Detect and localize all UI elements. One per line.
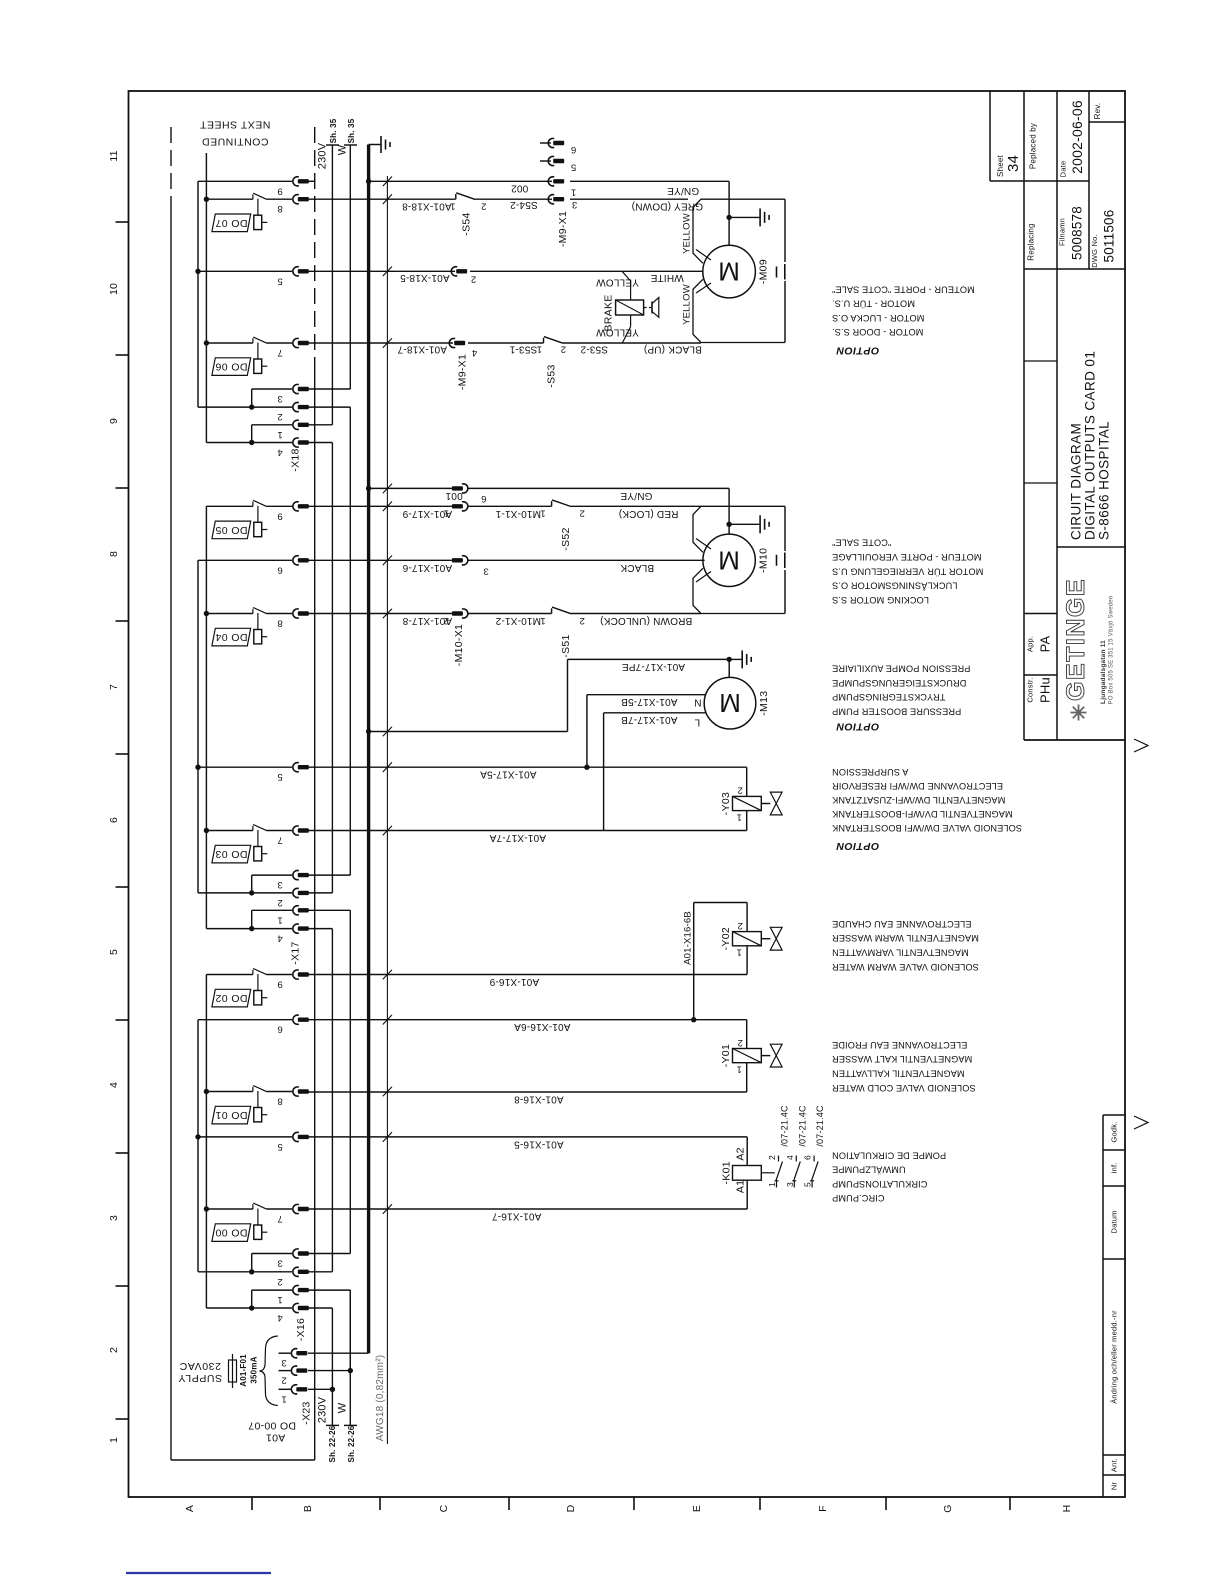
svg-text:5: 5 bbox=[277, 1141, 282, 1152]
svg-text:1: 1 bbox=[736, 812, 741, 823]
svg-text:MOTOR TÜR VERRIEGELUNG U.S: MOTOR TÜR VERRIEGELUNG U.S bbox=[832, 566, 983, 576]
svg-text:Ljungadalsgatan 11: Ljungadalsgatan 11 bbox=[1100, 640, 1107, 704]
svg-text:B: B bbox=[302, 1505, 314, 1512]
svg-text:DO 00-07: DO 00-07 bbox=[248, 1420, 296, 1432]
svg-text:2: 2 bbox=[471, 274, 476, 285]
svg-text:1: 1 bbox=[736, 947, 741, 958]
svg-text:DO 07: DO 07 bbox=[215, 217, 247, 229]
svg-text:Ant.: Ant. bbox=[1110, 1458, 1119, 1472]
capacitor M09 bbox=[776, 267, 778, 278]
wire row X16-5 to K01 A2 bbox=[308, 1136, 747, 1138]
wire row X17-7 (A) bbox=[308, 830, 747, 832]
motor M10 bbox=[703, 534, 755, 586]
svg-text:2: 2 bbox=[767, 1155, 777, 1160]
connector -X18 pins bbox=[293, 177, 299, 186]
svg-text:1: 1 bbox=[277, 429, 282, 440]
svg-text:3: 3 bbox=[572, 199, 577, 210]
svg-text:OPTION: OPTION bbox=[836, 720, 879, 732]
svg-text:A2: A2 bbox=[735, 1147, 747, 1160]
svg-text:1: 1 bbox=[108, 1437, 120, 1443]
DO 01 output bbox=[252, 1087, 254, 1092]
svg-text:Rev.: Rev. bbox=[1093, 103, 1102, 120]
svg-text:PRESSION POMPE AUXILIAIRE: PRESSION POMPE AUXILIAIRE bbox=[832, 664, 970, 674]
svg-text:LOCKING MOTOR S.S: LOCKING MOTOR S.S bbox=[832, 595, 929, 605]
svg-text:YELLOW: YELLOW bbox=[596, 276, 639, 287]
svg-text:WHITE: WHITE bbox=[650, 272, 683, 283]
svg-text:1: 1 bbox=[537, 343, 542, 354]
svg-text:-X18: -X18 bbox=[290, 448, 302, 471]
svg-text:A01-X17-7A: A01-X17-7A bbox=[489, 832, 546, 843]
PE bus junction dots bbox=[366, 179, 371, 184]
svg-text:Replacing: Replacing bbox=[1027, 223, 1036, 260]
svg-text:DRUCKSTEIGERUNGSPUMPE: DRUCKSTEIGERUNGSPUMPE bbox=[832, 678, 966, 688]
W bus (segments) bbox=[349, 145, 351, 389]
N wire to M13 bbox=[586, 695, 588, 768]
wire row X17-6 BLACK bbox=[308, 559, 452, 561]
svg-text:-M09: -M09 bbox=[757, 259, 769, 284]
svg-text:A01: A01 bbox=[266, 1432, 286, 1444]
solenoid valve -Y03 bbox=[733, 796, 762, 810]
svg-text:-X16: -X16 bbox=[295, 1318, 307, 1341]
svg-text:6: 6 bbox=[277, 1024, 282, 1035]
solenoid valve -Y02 bbox=[733, 932, 762, 946]
svg-text:4: 4 bbox=[785, 1155, 795, 1160]
svg-text:A1: A1 bbox=[735, 1180, 747, 1193]
svg-text:M: M bbox=[718, 257, 740, 287]
svg-text:3: 3 bbox=[108, 1215, 120, 1221]
svg-text:10: 10 bbox=[108, 283, 120, 295]
svg-text:C: C bbox=[438, 1504, 450, 1512]
svg-text:1: 1 bbox=[571, 187, 576, 198]
svg-text:SUPPLY: SUPPLY bbox=[178, 1372, 222, 1384]
svg-text:-Y02: -Y02 bbox=[720, 927, 732, 950]
svg-text:002: 002 bbox=[511, 183, 529, 194]
svg-text:ELECTROVANNE EAU CHAUDE: ELECTROVANNE EAU CHAUDE bbox=[832, 919, 971, 929]
PE wire from bus to M13 bbox=[369, 731, 568, 733]
frame row ticks bottom edge bbox=[251, 1497, 253, 1510]
svg-text:5: 5 bbox=[277, 771, 282, 782]
svg-text:6: 6 bbox=[571, 144, 576, 155]
svg-text:1: 1 bbox=[767, 1182, 777, 1187]
switch -S54 bbox=[455, 194, 457, 199]
svg-text:-X17: -X17 bbox=[290, 941, 302, 964]
M13 PE drop bbox=[728, 659, 730, 677]
svg-text:5: 5 bbox=[571, 162, 576, 173]
svg-text:4: 4 bbox=[277, 1312, 282, 1323]
card internal rail 206: X17 section bbox=[205, 506, 207, 928]
connector -M9-X1 pin 4 bbox=[449, 338, 455, 347]
svg-text:DIGITAL OUTPUTS CARD 01: DIGITAL OUTPUTS CARD 01 bbox=[1083, 351, 1098, 540]
svg-text:Godk.: Godk. bbox=[1110, 1121, 1119, 1142]
svg-text:D: D bbox=[565, 1504, 577, 1512]
svg-text:M: M bbox=[718, 545, 740, 575]
contactor -K01 coil bbox=[733, 1166, 762, 1181]
GETINGE star symbol bbox=[1071, 712, 1087, 714]
svg-text:Filnamn: Filnamn bbox=[1058, 218, 1067, 246]
svg-text:A01-X16-6A: A01-X16-6A bbox=[514, 1021, 571, 1032]
Y01 top feed bbox=[746, 1020, 748, 1049]
svg-text:8: 8 bbox=[277, 618, 282, 629]
svg-text:3: 3 bbox=[483, 566, 488, 577]
svg-text:Sh. 22-26: Sh. 22-26 bbox=[347, 1425, 356, 1462]
M09 yellow diagonals bbox=[696, 250, 711, 261]
card internal rail 198: X16 section bbox=[197, 1020, 199, 1272]
cable crossing slashes bbox=[383, 177, 392, 187]
GN/YE drop + ground M10 bbox=[728, 488, 730, 534]
brake circuit bbox=[622, 271, 631, 281]
switch -S51 bbox=[551, 608, 553, 613]
svg-text:8: 8 bbox=[108, 551, 120, 557]
connector -X16 pins bbox=[293, 970, 299, 979]
svg-text:CIRUIT DIAGRAM: CIRUIT DIAGRAM bbox=[1069, 423, 1084, 540]
svg-text:CONTINUED: CONTINUED bbox=[202, 136, 269, 148]
card internal rail 206: X18 section (from continuation) bbox=[205, 153, 207, 443]
svg-text:PHu: PHu bbox=[1038, 677, 1053, 703]
wire row X16-6A bbox=[308, 1019, 747, 1021]
svg-text:NEXT SHEET: NEXT SHEET bbox=[200, 119, 271, 131]
switch -S52 bbox=[551, 501, 553, 506]
svg-text:Inf.: Inf. bbox=[1110, 1162, 1119, 1173]
wire row 001 GN/YE to M10 bbox=[369, 487, 452, 489]
brake armature bbox=[644, 307, 651, 309]
svg-text:Ändring och/eller medd.-nr: Ändring och/eller medd.-nr bbox=[1110, 1310, 1119, 1404]
svg-text:MAGNETVENTIL DV/WFI-BOOSTERTAN: MAGNETVENTIL DV/WFI-BOOSTERTANK bbox=[831, 809, 1012, 819]
svg-text:G: G bbox=[942, 1504, 954, 1512]
svg-text:A01-X17-5B: A01-X17-5B bbox=[621, 696, 678, 707]
svg-text:001: 001 bbox=[445, 490, 463, 501]
svg-text:A01-X16-8: A01-X16-8 bbox=[514, 1094, 564, 1105]
DO 04 output bbox=[252, 609, 254, 614]
connector -X23 pins bbox=[291, 1349, 297, 1358]
svg-text:MAGNETVENTIL WARM WASSER: MAGNETVENTIL WARM WASSER bbox=[832, 933, 979, 943]
svg-text:GETINGE: GETINGE bbox=[1062, 578, 1090, 701]
svg-text:DO 02: DO 02 bbox=[215, 992, 247, 1004]
svg-text:2: 2 bbox=[277, 897, 282, 908]
svg-text:2: 2 bbox=[579, 508, 584, 519]
svg-text:GN/YE: GN/YE bbox=[620, 490, 652, 501]
svg-text:A01-X16-6B: A01-X16-6B bbox=[683, 911, 694, 965]
svg-text:5: 5 bbox=[803, 1182, 813, 1187]
svg-text:DO 06: DO 06 bbox=[215, 361, 247, 373]
svg-text:DO 01: DO 01 bbox=[215, 1109, 247, 1121]
svg-text:SOLENOID VALVE DW/WFI BOOSTERT: SOLENOID VALVE DW/WFI BOOSTERTANK bbox=[831, 823, 1022, 833]
svg-text:A01-X18-7: A01-X18-7 bbox=[397, 344, 447, 355]
svg-text:Sh. 35: Sh. 35 bbox=[329, 118, 338, 143]
svg-text:S-8666 HOSPITAL: S-8666 HOSPITAL bbox=[1097, 421, 1112, 540]
svg-text:S54-2: S54-2 bbox=[510, 199, 538, 210]
connector -M9-X1 pin 3 bbox=[548, 195, 554, 204]
svg-text:230V: 230V bbox=[317, 1396, 329, 1423]
svg-text:350mA: 350mA bbox=[250, 1356, 259, 1383]
svg-text:230VAC: 230VAC bbox=[179, 1360, 221, 1372]
svg-text:-M9-X1: -M9-X1 bbox=[457, 354, 469, 390]
wire row X16-9 (DO02) bbox=[308, 974, 747, 976]
wire row X17-8 (DO04) via S51 BROWN UNLOCK bbox=[308, 613, 452, 615]
wire row X16-7 (DO00) to K01 A1 bbox=[308, 1208, 747, 1210]
svg-text:SOLENOID VALVE COLD WATER: SOLENOID VALVE COLD WATER bbox=[832, 1083, 976, 1093]
svg-text:-S54: -S54 bbox=[461, 212, 473, 235]
svg-text:8: 8 bbox=[277, 1096, 282, 1107]
svg-text:5011506: 5011506 bbox=[1102, 210, 1117, 263]
connector -M10-X1 pin 6 bbox=[452, 486, 463, 490]
svg-text:DO 03: DO 03 bbox=[215, 848, 247, 860]
drawing frame border bbox=[129, 91, 1126, 1497]
capacitor M10 bbox=[776, 555, 778, 566]
svg-text:6: 6 bbox=[277, 564, 282, 575]
svg-text:4: 4 bbox=[472, 347, 477, 358]
wire row X18-5 WHITE bbox=[308, 270, 455, 272]
svg-text:BLACK: BLACK bbox=[620, 562, 654, 573]
svg-text:4: 4 bbox=[108, 1082, 120, 1088]
svg-text:Sh. 22-26: Sh. 22-26 bbox=[328, 1425, 337, 1462]
svg-text:2002-06-06: 2002-06-06 bbox=[1069, 100, 1085, 174]
cable spec line AWG18 bbox=[386, 176, 388, 1444]
svg-text:1: 1 bbox=[450, 200, 455, 211]
svg-text:A01-X16-7: A01-X16-7 bbox=[492, 1211, 542, 1222]
M9-X1 spare pins 6 and 5 bbox=[540, 142, 551, 144]
svg-text:4: 4 bbox=[277, 933, 282, 944]
connector -M10-X1 pin 1 bbox=[452, 504, 463, 508]
svg-text:2: 2 bbox=[108, 1347, 120, 1353]
ground symbol M13 bbox=[729, 658, 742, 660]
motor M09 bbox=[703, 245, 756, 298]
solenoid valve -Y01 bbox=[733, 1049, 762, 1063]
svg-text:MAGNETVENTIL KALT WASSER: MAGNETVENTIL KALT WASSER bbox=[832, 1054, 973, 1064]
svg-text:2: 2 bbox=[579, 615, 584, 626]
svg-text:A01-X17-5A: A01-X17-5A bbox=[480, 769, 537, 780]
svg-text:1: 1 bbox=[277, 914, 282, 925]
svg-text:MOTEUR - PORTE VEROUILLAGE: MOTEUR - PORTE VEROUILLAGE bbox=[832, 552, 981, 562]
svg-text:A: A bbox=[184, 1505, 196, 1512]
wire row X16-8 (DO01) bbox=[308, 1091, 747, 1093]
DO 05 output bbox=[252, 502, 254, 507]
svg-text:-S51: -S51 bbox=[560, 634, 572, 657]
X23 supply rows bbox=[308, 1352, 369, 1354]
svg-text:MAGNETVENTIL DW/WFI-ZUSATZTANK: MAGNETVENTIL DW/WFI-ZUSATZTANK bbox=[831, 795, 1005, 805]
svg-text:DO 00: DO 00 bbox=[215, 1227, 247, 1239]
svg-text:-Y03: -Y03 bbox=[720, 792, 732, 815]
svg-text:8: 8 bbox=[277, 203, 282, 214]
wire row X17-9 (DO05) via S52 RED LOCK bbox=[308, 505, 452, 507]
svg-text:A01-X16-9: A01-X16-9 bbox=[489, 976, 539, 987]
svg-text:YELLOW: YELLOW bbox=[596, 327, 639, 338]
motor M10 unit box bbox=[693, 506, 785, 613]
Y01 bottom feed bbox=[746, 1063, 748, 1092]
svg-text:/07-21.4C: /07-21.4C bbox=[815, 1105, 825, 1147]
svg-text:4: 4 bbox=[277, 447, 282, 458]
fold mark right edge lower bbox=[1134, 1116, 1148, 1129]
svg-text:Constr.: Constr. bbox=[1026, 677, 1035, 702]
svg-text:ELECTROVANNE DW/WFI RESERVOIR: ELECTROVANNE DW/WFI RESERVOIR bbox=[832, 781, 1003, 791]
svg-text:7: 7 bbox=[277, 1213, 282, 1224]
svg-text:BRAKE: BRAKE bbox=[603, 294, 615, 331]
svg-text:7: 7 bbox=[277, 347, 282, 358]
svg-text:-Y01: -Y01 bbox=[720, 1044, 732, 1067]
svg-text:MOTEUR - PORTE "COTE SALE": MOTEUR - PORTE "COTE SALE" bbox=[832, 284, 975, 294]
svg-text:A01-X17-7B: A01-X17-7B bbox=[621, 714, 678, 725]
svg-text:/07-21.4C: /07-21.4C bbox=[797, 1105, 807, 1147]
L wire to M13 bbox=[603, 713, 605, 831]
svg-text:11: 11 bbox=[108, 150, 120, 161]
connector -X17 pins bbox=[293, 502, 299, 511]
wire row X17-5 (A) bbox=[308, 766, 747, 768]
card internal rail 198: X17 section bbox=[197, 560, 199, 893]
svg-text:L: L bbox=[694, 717, 700, 728]
Y02 loop feed bbox=[746, 903, 748, 932]
svg-text:A SURPRESSION: A SURPRESSION bbox=[832, 767, 908, 777]
X23 pin group brace bbox=[260, 1336, 278, 1406]
svg-text:1: 1 bbox=[281, 1393, 286, 1404]
svg-text:BROWN (UNLOCK): BROWN (UNLOCK) bbox=[600, 615, 692, 626]
wire row X18-9 / GN-YE to M09 bbox=[369, 180, 552, 182]
svg-text:2: 2 bbox=[444, 615, 449, 626]
svg-text:E: E bbox=[691, 1505, 703, 1512]
svg-text:7: 7 bbox=[277, 835, 282, 846]
svg-text:GREY (DOWN): GREY (DOWN) bbox=[632, 201, 703, 212]
svg-text:2: 2 bbox=[277, 1276, 282, 1287]
svg-text:9: 9 bbox=[277, 979, 282, 990]
svg-text:2: 2 bbox=[737, 1037, 742, 1048]
A01 card bottom edge bbox=[171, 1459, 315, 1461]
svg-text:6: 6 bbox=[803, 1155, 813, 1160]
A01 card outline left edge (dashed continuation at top) bbox=[170, 127, 172, 203]
svg-text:S53-1: S53-1 bbox=[509, 344, 537, 355]
svg-text:7: 7 bbox=[108, 684, 120, 690]
wire row X18-8 (DO07) to S54 / GREY DOWN bbox=[308, 198, 456, 200]
svg-text:-K01: -K01 bbox=[721, 1161, 733, 1184]
X16->X23 link verticals bbox=[349, 1290, 351, 1371]
svg-text:34: 34 bbox=[1005, 155, 1022, 172]
svg-text:MAGNETVENTIL VARMVATTEN: MAGNETVENTIL VARMVATTEN bbox=[832, 948, 969, 958]
bus sheet-reference ticks bbox=[326, 144, 339, 146]
svg-text:2: 2 bbox=[481, 200, 486, 211]
svg-text:W: W bbox=[337, 1402, 349, 1413]
svg-text:A01-X16-5: A01-X16-5 bbox=[514, 1139, 564, 1150]
svg-text:POMPE DE CIRKULATION: POMPE DE CIRKULATION bbox=[832, 1150, 946, 1160]
svg-text:2: 2 bbox=[277, 411, 282, 422]
svg-text:"COTE SALE": "COTE SALE" bbox=[832, 538, 891, 548]
svg-text:RED (LOCK): RED (LOCK) bbox=[619, 508, 679, 519]
svg-text:-M13: -M13 bbox=[758, 691, 770, 716]
svg-text:5: 5 bbox=[108, 949, 120, 955]
svg-text:BLACK (UP): BLACK (UP) bbox=[644, 344, 702, 355]
connector -M10-X1 pin 2 bbox=[452, 611, 463, 615]
svg-text:-X23: -X23 bbox=[301, 1401, 313, 1424]
svg-text:App.: App. bbox=[1026, 636, 1035, 652]
svg-text:CIRKULATIONSPUMP: CIRKULATIONSPUMP bbox=[832, 1179, 927, 1189]
K01 contacts 1-2 3-4 5-6 bbox=[778, 1156, 780, 1162]
svg-text:TRYCKSTEGRINGSPUMP: TRYCKSTEGRINGSPUMP bbox=[832, 692, 945, 702]
svg-text:1: 1 bbox=[736, 1064, 741, 1075]
K01 coil feeds bbox=[746, 1137, 748, 1166]
DO 03 output bbox=[252, 826, 254, 831]
DO 02 output bbox=[252, 970, 254, 975]
svg-text:OPTION: OPTION bbox=[836, 840, 879, 852]
DO 06 output bbox=[252, 338, 254, 343]
svg-text:-S53: -S53 bbox=[546, 364, 558, 387]
svg-text:N: N bbox=[694, 697, 701, 708]
svg-text:2: 2 bbox=[737, 785, 742, 796]
svg-text:3: 3 bbox=[281, 1357, 286, 1368]
svg-text:1: 1 bbox=[277, 1294, 282, 1305]
svg-text:DWG No.: DWG No. bbox=[1090, 234, 1099, 267]
svg-text:-S52: -S52 bbox=[560, 527, 572, 550]
svg-text:MAGNETVENTIL KALLVATTEN: MAGNETVENTIL KALLVATTEN bbox=[832, 1069, 965, 1079]
svg-text:F: F bbox=[817, 1505, 829, 1512]
svg-text:9: 9 bbox=[277, 185, 282, 196]
svg-text:CIRC.PUMP: CIRC.PUMP bbox=[832, 1193, 884, 1203]
svg-text:A01-F01: A01-F01 bbox=[239, 1354, 248, 1387]
motor M09 unit box bbox=[693, 199, 785, 342]
svg-text:1: 1 bbox=[444, 508, 449, 519]
svg-text:MOTOR - DOOR S.S.: MOTOR - DOOR S.S. bbox=[832, 327, 923, 337]
svg-text:LUCKLÅSNINGSMOTOR O.S: LUCKLÅSNINGSMOTOR O.S bbox=[832, 581, 957, 591]
fuse A01-F01 symbol bbox=[229, 1360, 237, 1382]
svg-text:H: H bbox=[1061, 1505, 1073, 1513]
M10 red/brown diagonals bbox=[696, 539, 711, 550]
230V bus (segments) bbox=[331, 145, 333, 425]
svg-text:9: 9 bbox=[277, 510, 282, 521]
svg-text:W: W bbox=[337, 144, 349, 155]
svg-text:6: 6 bbox=[108, 817, 120, 823]
title block grid bbox=[989, 91, 991, 181]
card internal rail 198: X18 section bbox=[197, 181, 199, 407]
svg-text:M10-X1-1: M10-X1-1 bbox=[495, 508, 541, 519]
svg-text:/07-21.4C: /07-21.4C bbox=[780, 1105, 790, 1147]
Y03 feed wires bbox=[746, 767, 748, 796]
svg-text:SOLENOID VALVE WARM WATER: SOLENOID VALVE WARM WATER bbox=[832, 962, 979, 972]
connector -M9-X1 pin 2 bbox=[451, 267, 457, 276]
DO 00 output bbox=[252, 1204, 254, 1209]
svg-text:3: 3 bbox=[277, 1258, 282, 1269]
svg-text:5008578: 5008578 bbox=[1070, 206, 1085, 260]
card internal rail 206: X16 section bbox=[205, 975, 207, 1309]
fold mark right edge upper bbox=[1134, 739, 1148, 752]
supply pin row stubs to buses bbox=[308, 388, 350, 390]
svg-text:3: 3 bbox=[277, 393, 282, 404]
svg-text:A01-X17-6: A01-X17-6 bbox=[402, 562, 452, 573]
svg-text:-M10: -M10 bbox=[757, 548, 769, 573]
Y02 bottom feed bbox=[746, 946, 748, 975]
svg-text:Nr: Nr bbox=[1110, 1482, 1119, 1491]
pin3->row2 / pin1->row4 links bbox=[251, 389, 253, 407]
PE bus (thick) bbox=[367, 145, 370, 1354]
svg-text:A01-X17-7PE: A01-X17-7PE bbox=[622, 661, 685, 672]
svg-text:9: 9 bbox=[108, 418, 120, 424]
svg-text:PRESSURE BOOSTER PUMP: PRESSURE BOOSTER PUMP bbox=[832, 706, 961, 716]
svg-text:1: 1 bbox=[540, 508, 545, 519]
svg-text:GN/YE: GN/YE bbox=[667, 185, 699, 196]
frame column ticks left edge bbox=[116, 221, 129, 223]
blue pen mark bottom left bbox=[126, 1572, 271, 1574]
svg-text:2: 2 bbox=[737, 920, 742, 931]
ground symbol M09 bbox=[729, 216, 760, 218]
svg-text:A01-X18-8: A01-X18-8 bbox=[402, 201, 452, 212]
svg-text:1: 1 bbox=[540, 615, 545, 626]
svg-text:ELECTROVANNE EAU FROIDE: ELECTROVANNE EAU FROIDE bbox=[832, 1040, 967, 1050]
svg-text:Peplaced by: Peplaced by bbox=[1029, 123, 1038, 169]
svg-text:3: 3 bbox=[785, 1182, 795, 1187]
svg-text:DO 04: DO 04 bbox=[215, 631, 247, 643]
svg-text:A01-X18-5: A01-X18-5 bbox=[400, 272, 450, 283]
wire row X18-7 (DO06) to S53 / BLACK UP bbox=[308, 342, 453, 344]
svg-text:PO Box 505 SE 351 15 Växjö Swe: PO Box 505 SE 351 15 Växjö Sweden bbox=[1109, 596, 1115, 705]
svg-text:Datum: Datum bbox=[1110, 1210, 1119, 1233]
svg-text:Sh. 35: Sh. 35 bbox=[347, 118, 356, 143]
revision strip bbox=[1102, 1115, 1104, 1497]
svg-text:AWG18 (0,82mm²): AWG18 (0,82mm²) bbox=[375, 1355, 386, 1442]
svg-text:M: M bbox=[719, 688, 741, 718]
